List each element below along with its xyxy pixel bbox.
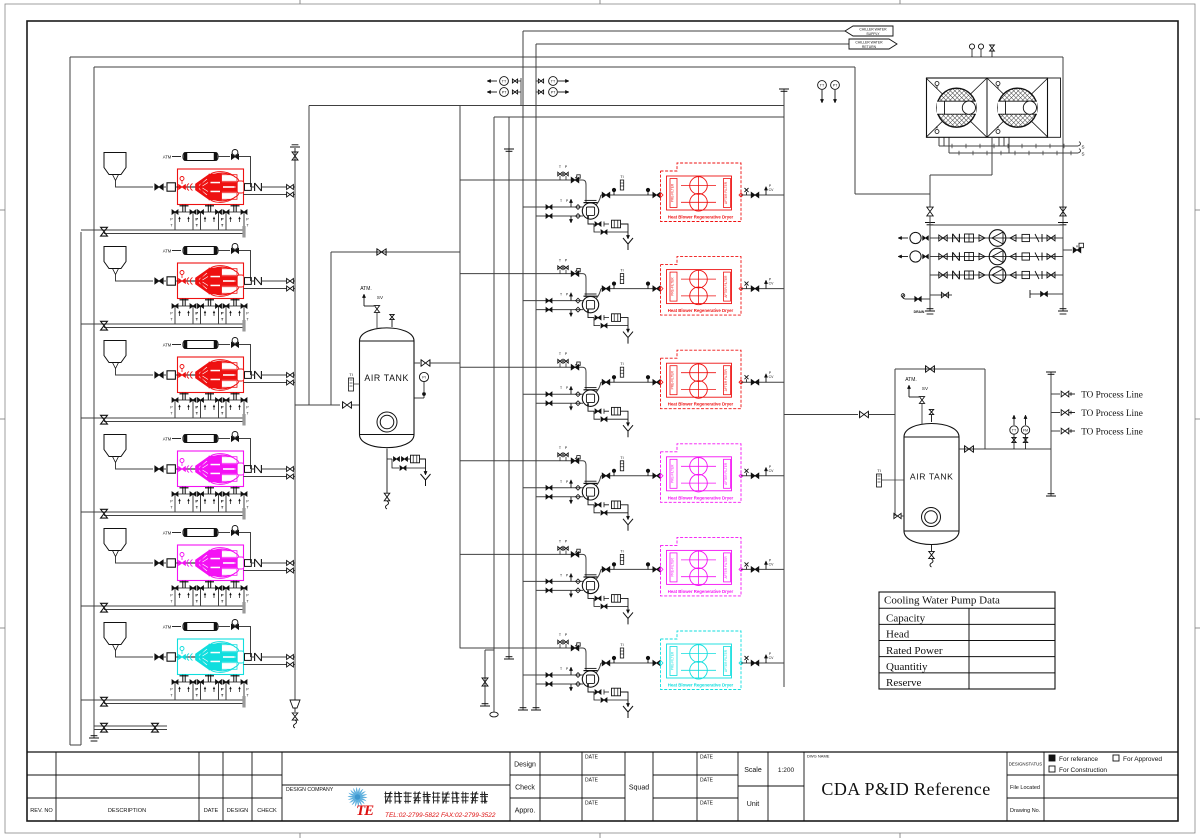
chiller water supply flag <box>845 26 893 36</box>
pump suction header <box>929 225 931 311</box>
air receiver tank 2 inlet line <box>784 414 858 416</box>
dryer train 2 boundary flow ticks <box>659 287 663 291</box>
design status cell <box>1006 752 1008 821</box>
dryer feed header riser <box>459 106 461 649</box>
compressor train 1 discharge valves <box>287 185 294 190</box>
compressor train 6 inlet wire <box>116 651 154 658</box>
pump suction valve left <box>927 207 933 216</box>
tank 2 inlet nozzle valve <box>894 513 901 518</box>
dryer train 5 cooler drain <box>588 594 594 599</box>
dryer train 2 dryer body <box>667 270 732 304</box>
compressor train 3 inlet valve <box>155 372 163 378</box>
compressor train 2 inlet wire <box>116 275 154 282</box>
svg-text:PT: PT <box>551 90 556 94</box>
compressor train 3 cooling water header <box>81 417 244 419</box>
dryer train 1 dryer towers <box>690 177 708 195</box>
svg-text:For Construction: For Construction <box>1059 767 1107 774</box>
dryer train 3 aftercooler <box>580 367 586 390</box>
secondary air header <box>494 116 784 118</box>
dryer train 1 feed valve <box>571 177 579 182</box>
svg-text:CV: CV <box>769 375 774 379</box>
pump header end caps <box>925 310 935 312</box>
compressor train 3 inlet strainer box <box>167 371 175 379</box>
compressor train 1 discharge fittings <box>245 184 252 191</box>
svg-text:Reserve: Reserve <box>886 677 922 689</box>
cooling water pump 1 <box>989 230 1006 247</box>
instrument group TT PT right <box>538 79 543 83</box>
tank 2 outlet line <box>959 448 1051 450</box>
left riser pipe B <box>80 232 82 745</box>
svg-text:AFTER FILTER: AFTER FILTER <box>724 368 728 391</box>
dryer train 5 dryer towers <box>690 551 708 569</box>
svg-text:PRE-FILTER: PRE-FILTER <box>671 651 675 670</box>
svg-text:DESIGNSTATUS: DESIGNSTATUS <box>1009 762 1043 767</box>
svg-text:DESIGN COMPANY: DESIGN COMPANY <box>286 787 334 793</box>
svg-text:Drawing No.: Drawing No. <box>1010 808 1041 814</box>
right return riser <box>854 67 856 194</box>
sheet border ticks <box>0 209 5 211</box>
title block frame <box>27 751 1178 753</box>
compressor train 1 inlet wire <box>116 181 154 188</box>
compressor train 3 header valve <box>101 415 108 424</box>
svg-text:PRE-FILTER: PRE-FILTER <box>671 464 675 483</box>
svg-text:T: T <box>560 573 562 577</box>
compressor train 6 discharge valves <box>287 655 294 660</box>
compressor train 3 discharge valves <box>287 373 294 378</box>
compressor train 5 inlet strainer box <box>167 559 175 567</box>
svg-text:TI: TI <box>620 456 623 460</box>
dryer train 5 boundary flow ticks <box>659 567 663 571</box>
svg-text:PRE-FILTER: PRE-FILTER <box>671 277 675 296</box>
pump skid drain line left <box>905 298 930 300</box>
svg-text:FM: FM <box>1023 428 1028 432</box>
dryer train 4 aftercooler <box>580 461 586 484</box>
svg-text:ATM: ATM <box>163 343 172 348</box>
compressor train 2 instrument manifold <box>182 299 184 306</box>
pump suction strainer 1 <box>900 237 908 239</box>
dryer train 1 dryer inlet line <box>601 194 660 196</box>
compressor train 6 instrument manifold <box>182 675 184 682</box>
compressor train 2 discharge valves <box>287 279 294 284</box>
outlet header TT PT instruments <box>818 81 827 90</box>
svg-text:CV: CV <box>769 656 774 660</box>
svg-text:AFTER FILTER: AFTER FILTER <box>724 462 728 485</box>
svg-text:RETURN: RETURN <box>862 45 877 49</box>
dryer train 5 outlet fittings <box>741 568 784 570</box>
spare cooling water line bottom <box>94 725 167 727</box>
svg-text:CV: CV <box>769 188 774 192</box>
svg-text:TEL:02-2799-5822 FAX:02-2799-: TEL:02-2799-5822 FAX:02-2799-3522 <box>385 812 496 819</box>
compressor train 1 header valve <box>101 227 108 236</box>
air header to right plant <box>309 105 784 107</box>
svg-text:TI: TI <box>620 643 623 647</box>
svg-text:T: T <box>560 480 562 484</box>
svg-text:AFTER FILTER: AFTER FILTER <box>724 649 728 672</box>
dryer train 3 cooling water lines <box>523 393 583 395</box>
compressor train 6 inlet strainer box <box>167 653 175 661</box>
dryer train 6 dryer body <box>667 644 732 678</box>
dryer train 1 boundary flow ticks <box>659 193 663 197</box>
svg-text:Heat Blower Regenerative Dryer: Heat Blower Regenerative Dryer <box>668 402 734 407</box>
dryer train 1 air feed line <box>460 179 580 181</box>
compressor train 5 package box <box>178 545 244 581</box>
svg-text:REV. NO: REV. NO <box>30 808 53 814</box>
svg-text:AFTER FILTER: AFTER FILTER <box>724 556 728 579</box>
svg-text:ATM: ATM <box>163 155 172 160</box>
dryer train 5 dryer inlet line <box>601 568 660 570</box>
tower makeup instruments <box>969 44 974 49</box>
svg-text:TO Process Line: TO Process Line <box>1081 408 1143 418</box>
svg-text:TO Process Line: TO Process Line <box>1081 426 1143 436</box>
svg-text:TI: TI <box>349 372 353 377</box>
dryer train 6 feed valve <box>571 645 579 650</box>
tank 2 manhole <box>922 508 941 527</box>
dryer train 6 dryer inlet line <box>601 662 660 664</box>
dryer train 3 air feed line <box>460 366 580 368</box>
tank 1 outlet valve <box>414 362 420 364</box>
svg-text:TE: TE <box>356 803 374 819</box>
chilled water riser 2 with caps <box>508 117 510 659</box>
svg-text:For referance: For referance <box>1059 756 1098 763</box>
chiller water return header top <box>94 66 855 68</box>
dryer train 2 air feed line <box>460 273 580 275</box>
svg-text:PT: PT <box>833 83 838 87</box>
dryer train 2 cooling water lines <box>523 300 583 302</box>
dryer train 2 dryer towers <box>690 270 708 288</box>
dryer train 5 dryer package boundary <box>661 537 742 596</box>
compressor train 4 inlet valve <box>155 466 163 472</box>
spare line valve 2 <box>152 723 159 732</box>
chiller water supply header top <box>70 56 1063 58</box>
svg-text:DATE: DATE <box>204 808 219 814</box>
svg-text:T: T <box>560 293 562 297</box>
svg-text:TI: TI <box>877 468 881 473</box>
svg-text:DATE: DATE <box>585 778 599 784</box>
svg-text:Appro.: Appro. <box>515 808 536 815</box>
dryer train 3 cooler drain <box>588 406 594 411</box>
svg-text:SV: SV <box>377 295 384 300</box>
dryer train 5 dryer body <box>667 550 732 584</box>
svg-text:Capacity: Capacity <box>886 613 926 625</box>
dryer train 4 dryer inlet line <box>601 475 660 477</box>
compressor train 5 instrument manifold <box>182 581 184 588</box>
dryer train 3 dryer inlet line <box>601 381 660 383</box>
cooling water pump 2 <box>989 248 1006 265</box>
air receiver tank 1 bypass line <box>331 251 460 253</box>
svg-text:AFTER FILTER: AFTER FILTER <box>724 275 728 298</box>
svg-text:DRAIN: DRAIN <box>914 310 925 314</box>
company logo pinwheel <box>347 787 367 807</box>
compressor train 6 header valve <box>101 697 108 706</box>
dryer train 6 boundary flow ticks <box>659 661 663 665</box>
dryer train 4 cooler drain <box>588 500 594 505</box>
svg-text:DESCRIPTION: DESCRIPTION <box>108 808 146 814</box>
dryer train 6 cooling water lines <box>523 674 583 676</box>
dryer train 4 feed valve <box>571 458 579 463</box>
cooling tower distribution lines <box>938 137 940 146</box>
svg-text:T: T <box>560 199 562 203</box>
dryer train 4 dryer package boundary <box>661 444 742 503</box>
compressor train 1 unload valve <box>232 150 238 156</box>
svg-text:Heat Blower Regenerative Dryer: Heat Blower Regenerative Dryer <box>668 683 734 688</box>
tank 1 drain piping <box>386 449 388 494</box>
company name glyphs <box>385 792 489 804</box>
scale and unit cells <box>767 752 769 821</box>
tank 2 bypass valve <box>926 366 935 372</box>
cooling water pump line 3 <box>930 274 1063 276</box>
compressor train 4 discharge valves <box>287 467 294 472</box>
svg-text:S: S <box>1081 152 1084 157</box>
svg-text:PRE-FILTER: PRE-FILTER <box>671 558 675 577</box>
svg-text:DATE: DATE <box>700 801 714 807</box>
dryer train 2 dryer package boundary <box>661 257 742 316</box>
dryer train 1 dryer body <box>667 176 732 210</box>
approval rows <box>539 752 541 821</box>
relief valve on discharge riser <box>294 148 296 152</box>
spare line valve 1 <box>101 723 108 732</box>
chiller supply riser mid <box>522 31 524 710</box>
svg-text:DATE: DATE <box>700 755 714 761</box>
svg-text:DATE: DATE <box>585 755 599 761</box>
dryer train 6 dryer package boundary <box>661 631 742 690</box>
svg-text:CV: CV <box>769 469 774 473</box>
chiller return line to flag <box>536 43 849 45</box>
compressor train 2 cooling water header <box>81 323 244 325</box>
tank 2 drain valve <box>931 544 933 551</box>
cooling water pump 3 <box>989 267 1006 284</box>
svg-text:PRE-FILTER: PRE-FILTER <box>671 183 675 202</box>
svg-text:PRE-FILTER: PRE-FILTER <box>671 370 675 389</box>
dryer train 6 cooler drain <box>588 687 594 692</box>
compressor train 6 package box <box>178 639 244 675</box>
compressor train 3 compressor internals <box>178 374 244 376</box>
compressor train 4 cooling water header <box>81 511 244 513</box>
tank 1 outlet line <box>430 362 460 364</box>
dryer train 1 cooling water lines <box>523 206 583 208</box>
compressor train 6 inlet valve <box>155 654 163 660</box>
compressor train 1 inlet strainer box <box>167 183 175 191</box>
compressor train 1 package box <box>178 169 244 205</box>
compressor train 2 package box <box>178 263 244 299</box>
design company cell <box>282 784 510 786</box>
svg-text:DATE: DATE <box>700 778 714 784</box>
compressor train 1 inlet valve <box>155 184 163 190</box>
dryer train 5 air feed line <box>460 553 580 555</box>
dryer train 1 dryer package boundary <box>661 163 742 222</box>
compressor train 4 package box <box>178 451 244 487</box>
compressor train 2 unload valve <box>232 244 238 250</box>
chiller supply line to flag <box>523 30 845 32</box>
compressor train 3 inlet filter hopper <box>104 341 126 363</box>
dryer train 6 dryer towers <box>690 645 708 663</box>
tank 1 inlet valve <box>343 402 352 408</box>
svg-text:Scale: Scale <box>744 767 762 774</box>
tower spray line 1 <box>939 145 1078 147</box>
discharge riser bottom funnel <box>290 700 300 708</box>
compressor train 2 inlet filter hopper <box>104 247 126 269</box>
tank 1 drain funnel <box>421 474 426 480</box>
compressor train 5 discharge fittings <box>245 560 252 567</box>
dryer train 6 air feed line <box>460 647 580 649</box>
compressor train 4 compressor internals <box>178 468 244 470</box>
svg-text:CV: CV <box>769 562 774 566</box>
tank 1 drain bypass valve <box>392 459 399 468</box>
compressor train 5 compressor internals <box>178 562 244 564</box>
svg-text:Design: Design <box>514 762 536 769</box>
chilled water riser 1 with bottom cap <box>493 117 495 712</box>
pump suction valve right <box>1062 208 1064 225</box>
dryer train 6 outlet fittings <box>741 662 784 664</box>
svg-text:ATM.: ATM. <box>360 286 372 292</box>
compressor train 6 compressor internals <box>178 656 244 658</box>
svg-text:CDA P&ID Reference: CDA P&ID Reference <box>821 779 990 799</box>
compressor train 5 discharge valves <box>287 561 294 566</box>
dryer train 4 outlet fittings <box>741 475 784 477</box>
compressor train 5 header valve <box>101 603 108 612</box>
compressor train 5 cooling water header <box>81 605 244 607</box>
revision columns <box>27 774 282 776</box>
outlet FM flow meter <box>1025 417 1027 425</box>
compressor train 1 compressor internals <box>178 186 244 188</box>
dryer train 5 cooling water lines <box>523 580 583 582</box>
compressor train 4 discharge fittings <box>245 466 252 473</box>
svg-text:TI: TI <box>620 269 623 273</box>
compressor train 1 instrument manifold <box>182 205 184 212</box>
svg-text:TI: TI <box>620 549 623 553</box>
compressor train 2 inlet strainer box <box>167 277 175 285</box>
tank 2 bypass loop <box>894 369 896 516</box>
dryer train 3 dryer body <box>667 363 732 397</box>
to process line branch <box>1051 430 1060 432</box>
dryer train 3 feed valve <box>571 365 579 370</box>
compressor train 3 unload valve <box>232 338 238 344</box>
dryer train 1 aftercooler <box>580 180 586 203</box>
pump skid drain stub valve <box>930 294 952 296</box>
compressor train 3 discharge fittings <box>245 372 252 379</box>
left riser pipe A <box>69 57 71 745</box>
svg-text:For Approved: For Approved <box>1123 756 1162 763</box>
compressor train 2 inlet valve <box>155 278 163 284</box>
spare chilled water stub <box>485 649 494 651</box>
tower spray line 2 <box>949 152 1078 154</box>
dryer train 2 dryer inlet line <box>601 288 660 290</box>
chiller return riser mid <box>535 44 537 710</box>
svg-text:ATM.: ATM. <box>905 377 917 383</box>
compressor train 6 discharge fittings <box>245 654 252 661</box>
svg-text:Check: Check <box>515 785 535 792</box>
pump 1 discharge fittings <box>1010 235 1016 241</box>
to process line branch <box>1051 412 1060 414</box>
dryer train 4 air feed line <box>460 460 580 462</box>
svg-text:T: T <box>560 386 562 390</box>
pump skid drain valve right <box>1030 293 1063 295</box>
svg-text:Heat Blower Regenerative Dryer: Heat Blower Regenerative Dryer <box>668 495 734 500</box>
svg-text:ATM: ATM <box>163 625 172 630</box>
compressor train 6 unload valve <box>232 620 238 626</box>
svg-text:SUPPLY: SUPPLY <box>866 32 880 36</box>
svg-text:ATM: ATM <box>163 437 172 442</box>
svg-text:DWG NAME: DWG NAME <box>807 754 830 759</box>
compressor train 2 compressor internals <box>178 280 244 282</box>
svg-text:Quantitiy: Quantitiy <box>886 661 928 673</box>
process header <box>1050 372 1052 496</box>
outlet TT transmitter <box>1013 417 1015 425</box>
compressor train 6 inlet filter hopper <box>104 623 126 645</box>
tank 1 inlet line <box>295 404 340 406</box>
tank 1 top valve <box>391 320 393 327</box>
svg-text:Heat Blower Regenerative Dryer: Heat Blower Regenerative Dryer <box>668 215 734 220</box>
tank 1 manhole <box>377 412 397 432</box>
svg-text:File Located: File Located <box>1010 785 1040 791</box>
left riser pipe C with end cap <box>93 67 95 738</box>
svg-text:Head: Head <box>886 629 910 641</box>
air receiver tank 2 shell <box>904 424 959 545</box>
pump 3 discharge fittings <box>1010 272 1016 278</box>
dryer train 3 dryer package boundary <box>661 350 742 409</box>
instrument group TT PT left <box>489 80 497 82</box>
tank 2 top valve <box>931 415 933 422</box>
dryer train 2 aftercooler <box>580 274 586 297</box>
svg-text:TI: TI <box>620 362 623 366</box>
cooling tower fan cell <box>987 78 1048 137</box>
svg-text:DESIGN: DESIGN <box>227 808 248 814</box>
svg-text:DATE: DATE <box>585 801 599 807</box>
svg-text:AFTER FILTER: AFTER FILTER <box>724 181 728 204</box>
compressor train 1 cooling water header <box>81 229 244 231</box>
svg-text:CV: CV <box>769 282 774 286</box>
svg-text:Unit: Unit <box>747 801 760 808</box>
cooling water pump line 2 <box>930 256 1063 258</box>
dryer train 4 boundary flow ticks <box>659 474 663 478</box>
dryer train 5 aftercooler <box>580 554 586 577</box>
pump 2 discharge fittings <box>1010 253 1016 259</box>
cooling water pump data table <box>879 592 1055 689</box>
dryer train 4 dryer towers <box>690 458 708 476</box>
air receiver tank 1 shell <box>360 328 415 448</box>
svg-text:CHECK: CHECK <box>257 808 277 814</box>
chiller water return flag <box>849 39 897 49</box>
svg-text:Squad: Squad <box>629 785 649 792</box>
svg-text:AIR TANK: AIR TANK <box>910 472 954 482</box>
compressor train 4 inlet wire <box>116 463 154 470</box>
dryer train 2 outlet fittings <box>741 288 784 290</box>
dryer train 3 boundary flow ticks <box>659 380 663 384</box>
tank 1 PI gauge <box>419 372 428 381</box>
to process line branch <box>1051 393 1060 395</box>
compressor train 4 unload valve <box>232 432 238 438</box>
dryer train 3 dryer towers <box>690 364 708 382</box>
svg-text:1:200: 1:200 <box>778 767 795 774</box>
compressor train 5 inlet valve <box>155 560 163 566</box>
svg-text:Heat Blower Regenerative Dryer: Heat Blower Regenerative Dryer <box>668 589 734 594</box>
svg-text:TI: TI <box>620 175 623 179</box>
dryer train 1 outlet fittings <box>741 194 784 196</box>
compressor train 3 inlet wire <box>116 369 154 376</box>
dryer train 2 cooler drain <box>588 313 594 318</box>
svg-text:PI: PI <box>422 375 425 379</box>
cooling water pump line 1 <box>930 237 1063 239</box>
dryer train 1 cooler drain <box>588 219 594 224</box>
tank 1 bottom drain valve <box>384 493 390 501</box>
compressor train 2 discharge fittings <box>245 278 252 285</box>
cooling tower casing <box>927 78 1048 137</box>
svg-text:S: S <box>1081 145 1084 150</box>
tank 2 outlet valve <box>965 446 974 452</box>
squad cell <box>652 752 654 821</box>
svg-text:CHILLER WATER: CHILLER WATER <box>855 40 883 44</box>
dryer train 2 feed valve <box>571 271 579 276</box>
svg-text:Rated Power: Rated Power <box>886 645 943 657</box>
